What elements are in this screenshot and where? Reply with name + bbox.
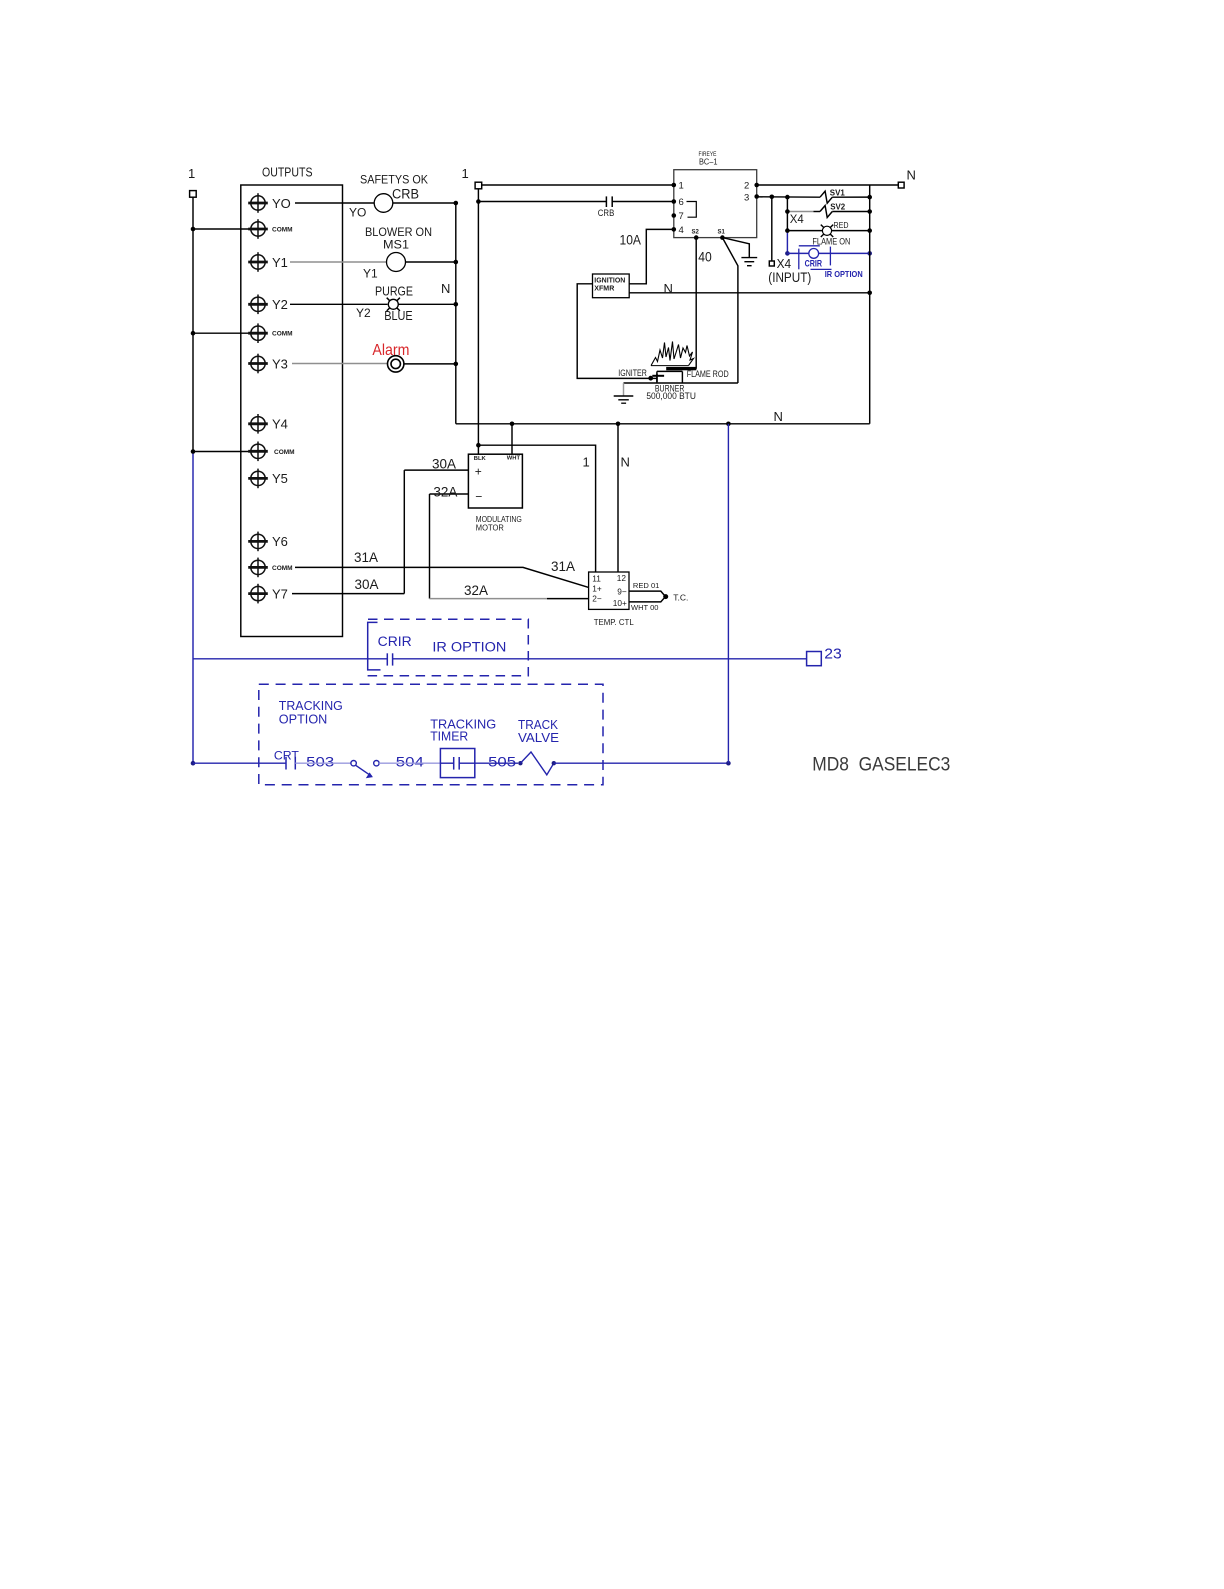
valve coil SV2 bbox=[820, 202, 846, 217]
wire track valve to riser bbox=[554, 762, 729, 764]
junction dot flame-on bus bbox=[867, 228, 872, 233]
svg-text:40: 40 bbox=[698, 249, 712, 265]
wire 30A riser bbox=[403, 470, 405, 593]
svg-text:Y1: Y1 bbox=[272, 255, 288, 270]
wire 32A bottom run bbox=[547, 598, 589, 600]
flame rod (thick bar) bbox=[666, 367, 696, 370]
pin S2 bbox=[692, 230, 700, 240]
terminal Y0 bbox=[248, 193, 291, 213]
label IGNITER bbox=[618, 368, 647, 378]
label WHT 00 bbox=[631, 603, 659, 612]
svg-text:9−: 9− bbox=[617, 586, 627, 596]
svg-text:Y2: Y2 bbox=[356, 306, 371, 320]
terminal Y2 bbox=[248, 295, 288, 315]
wire COMM3 to bus bbox=[193, 451, 254, 453]
svg-text:TEMP. CTL: TEMP. CTL bbox=[594, 617, 634, 627]
svg-text:VALVE: VALVE bbox=[518, 730, 559, 745]
contact CRT bbox=[274, 750, 299, 769]
wire 32A bottom run (gray) bbox=[430, 598, 548, 600]
wire 9- output RED 01 bbox=[629, 591, 665, 596]
wire SV column vertical (black) bbox=[786, 197, 788, 231]
bracket (ir option enclosure left) bbox=[368, 622, 381, 670]
wire X4 input column bbox=[771, 197, 773, 261]
svg-text:4: 4 bbox=[679, 225, 684, 236]
terminal Y4 bbox=[248, 414, 288, 434]
junction dot COMM3 bbox=[191, 449, 196, 454]
wire flame-on row left bbox=[787, 230, 822, 232]
temperature controller TEMP CTL box bbox=[589, 572, 634, 627]
label 10A bbox=[620, 232, 642, 248]
svg-text:Y6: Y6 bbox=[272, 534, 288, 549]
label 30A (top) bbox=[432, 456, 456, 471]
wire MS1 to N bus bbox=[406, 261, 456, 263]
label X4 (INPUT) bbox=[768, 256, 811, 285]
wire bottom N run bbox=[456, 423, 870, 425]
wire pin 2 to N terminal bbox=[757, 184, 899, 186]
node 1 (ladder hot label) bbox=[462, 166, 469, 181]
node N (xfmr row label) bbox=[664, 281, 673, 296]
terminal COMM (3) bbox=[248, 442, 294, 462]
junction dot row2 start bbox=[476, 199, 481, 204]
wire SV2 row (gray lead) bbox=[787, 211, 813, 213]
burner section bbox=[456, 342, 870, 427]
terminal square 23 bbox=[807, 646, 842, 666]
wire CRB to N bus bbox=[393, 202, 456, 204]
wire 31A run from COMM bbox=[295, 567, 589, 587]
label 31A (right) bbox=[551, 559, 575, 574]
svg-text:Y4: Y4 bbox=[272, 417, 288, 432]
junction dot 1-branch bbox=[476, 443, 481, 448]
wire row2 bus to CRB contact bbox=[478, 201, 606, 203]
node N (right label) bbox=[907, 168, 916, 183]
terminal Y5 bbox=[248, 469, 288, 489]
svg-text:RED: RED bbox=[834, 221, 849, 230]
label MD8 GASELEC3 bbox=[812, 755, 950, 776]
svg-text:COMM: COMM bbox=[274, 449, 295, 456]
junction dot Y1 row N bus bbox=[454, 260, 459, 265]
switch TRACK VALVE bbox=[518, 717, 559, 775]
label 40 bbox=[698, 249, 712, 265]
svg-text:S1: S1 bbox=[718, 230, 726, 236]
pin 2 bbox=[744, 181, 759, 192]
wire 30A run to motor plus bbox=[404, 469, 468, 471]
label CRIR (ir option) bbox=[378, 634, 412, 649]
label BURNER bbox=[655, 383, 685, 393]
label YO (wire tag) bbox=[349, 206, 366, 220]
wire ladder hot bus vertical bbox=[477, 189, 479, 454]
svg-text:31A: 31A bbox=[551, 559, 575, 574]
svg-text:Y1: Y1 bbox=[363, 267, 378, 281]
label 32A (lower) bbox=[464, 583, 488, 598]
label BLOWER ON bbox=[365, 225, 432, 239]
svg-text:504: 504 bbox=[396, 753, 424, 769]
wire Y1 to MS1 coil (gray) bbox=[290, 261, 387, 263]
relay coil CRB bbox=[374, 187, 419, 213]
svg-text:CRB: CRB bbox=[598, 208, 615, 218]
junction dot SV column bbox=[785, 195, 790, 200]
wire wht column bbox=[511, 424, 513, 454]
label 31A (left) bbox=[354, 550, 378, 565]
terminal Y1 bbox=[248, 252, 288, 272]
terminal square left bus 1 bbox=[190, 191, 197, 198]
wire left bus vertical (black upper) bbox=[192, 197, 194, 451]
label 504 bbox=[396, 753, 424, 769]
node N (bottom run label) bbox=[774, 409, 783, 424]
wire crir row right (blue) bbox=[819, 252, 870, 254]
terminal Y6 bbox=[248, 532, 288, 552]
wire Y3 to alarm (gray) bbox=[292, 363, 388, 365]
svg-text:OUTPUTS: OUTPUTS bbox=[262, 165, 313, 180]
svg-text:CRB: CRB bbox=[392, 187, 419, 202]
relay coil CRIR (IR option) bbox=[805, 249, 863, 279]
svg-text:PURGE: PURGE bbox=[375, 285, 413, 299]
ir option dashed enclosure bbox=[366, 619, 528, 676]
svg-text:30A: 30A bbox=[355, 577, 379, 592]
switch 503/504 (timed contact) bbox=[351, 761, 379, 779]
svg-text:BLK: BLK bbox=[474, 456, 487, 462]
junction dot SV2 bus bbox=[867, 209, 872, 214]
svg-text:WHT 00: WHT 00 bbox=[631, 603, 659, 612]
terminal COMM (1) bbox=[248, 219, 292, 239]
terminal square X4 input bbox=[769, 261, 774, 266]
wire S1 to ground bbox=[722, 238, 749, 258]
junction dot tracking riser bottom bbox=[726, 761, 731, 766]
svg-text:BLUE: BLUE bbox=[384, 309, 413, 323]
svg-text:Y5: Y5 bbox=[272, 471, 288, 486]
svg-text:+: + bbox=[475, 465, 482, 479]
valve coil SV1 bbox=[820, 189, 845, 204]
label 30A (lower) bbox=[355, 577, 379, 592]
svg-text:N: N bbox=[621, 455, 630, 470]
wire CRT to switch (light) bbox=[295, 762, 351, 764]
svg-text:32A: 32A bbox=[464, 583, 488, 598]
pin 1 bbox=[672, 181, 684, 192]
svg-text:MOTOR: MOTOR bbox=[476, 524, 504, 533]
svg-text:IGNITER: IGNITER bbox=[618, 368, 647, 378]
label FLAME ROD bbox=[687, 369, 729, 379]
label 500,000 BTU bbox=[646, 391, 696, 401]
terminal COMM (4) bbox=[248, 558, 292, 578]
svg-text:503: 503 bbox=[306, 753, 334, 769]
ir option section bbox=[193, 619, 842, 676]
svg-text:N: N bbox=[774, 409, 783, 424]
terminals Y0-Y7 and COMM bbox=[248, 193, 294, 603]
svg-text:1+: 1+ bbox=[592, 583, 602, 593]
flame bbox=[651, 342, 694, 366]
svg-text:COMM: COMM bbox=[272, 331, 293, 338]
contact CRIR (ir option) bbox=[387, 653, 392, 665]
svg-text:30A: 30A bbox=[432, 456, 456, 471]
terminal square ladder hot bbox=[475, 182, 482, 189]
svg-text:MS1: MS1 bbox=[383, 238, 409, 252]
svg-text:N: N bbox=[907, 168, 916, 183]
label IR OPTION bbox=[432, 639, 506, 654]
wire N column to temp ctl pin 12 bbox=[617, 424, 619, 572]
transformer IGNITION XFMR bbox=[593, 274, 630, 298]
pin 6 bbox=[672, 197, 684, 208]
wire pin 3 row bbox=[757, 196, 820, 198]
svg-text:1: 1 bbox=[583, 455, 590, 470]
fireye section bbox=[462, 152, 873, 454]
node N (left section) bbox=[441, 281, 450, 296]
wire SV1 to right bus bbox=[832, 196, 869, 198]
svg-text:CRT: CRT bbox=[274, 750, 299, 762]
wire SV2 row bbox=[814, 211, 821, 213]
contactor coil MS1 bbox=[383, 238, 409, 272]
label SAFETYS OK bbox=[360, 173, 428, 187]
contact CRB (NO) bbox=[598, 196, 615, 217]
bracket left (ir option) bbox=[799, 246, 820, 269]
svg-text:WHT: WHT bbox=[507, 456, 521, 462]
svg-text:SAFETYS OK: SAFETYS OK bbox=[360, 173, 428, 187]
row devices bbox=[290, 173, 458, 424]
wire left bus vertical (blue lower) bbox=[192, 452, 194, 764]
svg-text:3: 3 bbox=[744, 192, 749, 203]
motor & temp ctl section bbox=[292, 424, 688, 627]
bracket right (ir option) bbox=[811, 247, 832, 270]
flame baseline bbox=[651, 365, 689, 367]
wire 1-branch to temp ctl bbox=[478, 445, 595, 572]
svg-text:1: 1 bbox=[679, 181, 684, 192]
wire left N bus vertical bbox=[455, 203, 457, 424]
junction dot temp ctl N column bbox=[616, 422, 621, 427]
node 1 (temp ctl feed label) bbox=[583, 455, 590, 470]
svg-text:N: N bbox=[664, 281, 673, 296]
terminal COMM (2) bbox=[248, 323, 292, 343]
svg-text:23: 23 bbox=[824, 646, 842, 663]
jumper pins 6-7 bbox=[687, 202, 697, 218]
label RED 01 bbox=[633, 581, 660, 590]
terminal square N (right) bbox=[898, 182, 904, 188]
svg-text:32A: 32A bbox=[433, 485, 457, 500]
svg-text:BLOWER ON: BLOWER ON bbox=[365, 225, 432, 239]
label Y1 (wire tag) bbox=[363, 267, 378, 281]
wire COMM1 to bus bbox=[193, 228, 251, 230]
svg-text:CRIR: CRIR bbox=[805, 258, 823, 269]
timer TRACKING TIMER bbox=[430, 716, 496, 777]
wire Y0 to CRB coil bbox=[295, 202, 374, 204]
svg-text:12: 12 bbox=[617, 573, 627, 583]
pin 7 bbox=[672, 211, 684, 222]
junction dot flame-on row bbox=[785, 228, 790, 233]
indicator Alarm (double circle) bbox=[372, 342, 409, 372]
label 32A (top) bbox=[433, 485, 457, 500]
junction dot SV1 bus bbox=[867, 195, 872, 200]
svg-text:2: 2 bbox=[744, 181, 749, 192]
svg-text:XFMR: XFMR bbox=[594, 284, 615, 293]
wire SV2 to right bus bbox=[832, 211, 869, 213]
label FIREYE bbox=[699, 152, 717, 158]
ground (S1) bbox=[741, 258, 757, 266]
label X4 (relay) bbox=[790, 212, 804, 226]
wire right N bus vertical bbox=[869, 185, 871, 424]
wire 32A run to motor minus bbox=[430, 493, 469, 495]
tracking option dashed enclosure bbox=[259, 684, 603, 785]
thermocouple T.C. bbox=[663, 592, 688, 602]
svg-text:500,000 BTU: 500,000 BTU bbox=[646, 391, 696, 401]
svg-text:TIMER: TIMER bbox=[430, 729, 468, 744]
svg-text:−: − bbox=[475, 490, 482, 504]
wire alarm to N bus bbox=[404, 363, 456, 365]
svg-text:COMM: COMM bbox=[272, 227, 293, 234]
wire Y7 to 30A riser bbox=[292, 593, 404, 595]
svg-text:1: 1 bbox=[188, 166, 195, 181]
lamp FLAME ON (RED) bbox=[812, 221, 850, 247]
terminal Y3 bbox=[248, 354, 288, 374]
pin 4 bbox=[672, 225, 684, 236]
svg-text:MD8 GASELEC3: MD8 GASELEC3 bbox=[812, 755, 950, 776]
junction dot Y0 row N bus bbox=[454, 201, 459, 206]
wire xfmr to igniter bbox=[577, 284, 650, 379]
wire S1 to burner body bbox=[722, 238, 738, 383]
junction dot crir row bbox=[785, 251, 790, 256]
svg-text:(INPUT): (INPUT) bbox=[768, 269, 811, 285]
svg-text:505: 505 bbox=[488, 753, 516, 769]
svg-text:IR OPTION: IR OPTION bbox=[432, 639, 506, 654]
junction dot N run right end bbox=[867, 291, 872, 296]
burner body bbox=[624, 371, 738, 383]
svg-text:COMM: COMM bbox=[272, 565, 293, 572]
junction dot COMM1 bbox=[191, 227, 196, 232]
wire flame-on row right bbox=[832, 230, 870, 232]
svg-text:YO: YO bbox=[272, 196, 291, 211]
svg-text:11: 11 bbox=[592, 573, 601, 583]
svg-text:FLAME ON: FLAME ON bbox=[812, 237, 850, 247]
svg-text:31A: 31A bbox=[354, 550, 378, 565]
wire ir option row left bbox=[193, 658, 387, 660]
ground (igniter) bbox=[614, 383, 634, 403]
wire Y2 to purge lamp bbox=[290, 303, 388, 305]
svg-text:Y7: Y7 bbox=[272, 586, 288, 601]
flame safeguard U1 FIREYE BC-1 box bbox=[674, 170, 757, 238]
label TRACKING OPTION bbox=[279, 698, 343, 727]
svg-text:MODULATING: MODULATING bbox=[476, 515, 522, 524]
modulating motor box bbox=[468, 454, 522, 532]
label BC-1 bbox=[699, 157, 718, 167]
label 503 bbox=[306, 753, 334, 769]
right ladder section bbox=[757, 168, 916, 424]
svg-text:OPTION: OPTION bbox=[279, 712, 328, 727]
node 1 (left hot bus label) bbox=[188, 166, 195, 181]
label Y2 (wire tag) bbox=[356, 306, 371, 320]
pin S1 bbox=[718, 230, 726, 240]
svg-text:BC–1: BC–1 bbox=[699, 157, 718, 167]
junction dot tracking row bbox=[191, 761, 196, 766]
svg-text:SV2: SV2 bbox=[830, 202, 846, 211]
svg-text:10+: 10+ bbox=[613, 598, 627, 608]
junction dot tracking riser bbox=[726, 422, 731, 427]
tracking option section bbox=[193, 424, 950, 785]
wire crir row left (blue) bbox=[787, 252, 808, 254]
svg-text:SV1: SV1 bbox=[830, 189, 846, 198]
svg-text:X4: X4 bbox=[790, 212, 804, 226]
svg-text:1: 1 bbox=[462, 166, 469, 181]
svg-text:FLAME ROD: FLAME ROD bbox=[687, 369, 729, 379]
svg-text:RED 01: RED 01 bbox=[633, 581, 660, 590]
label OUTPUTS bbox=[262, 165, 313, 180]
wire switch to timer (light) bbox=[379, 762, 440, 764]
svg-text:Alarm: Alarm bbox=[372, 342, 409, 359]
svg-text:CRIR: CRIR bbox=[378, 634, 412, 649]
junction dot Y3 row N bus bbox=[454, 362, 459, 367]
wire row1 square to pin 1 bbox=[482, 184, 674, 186]
junction dot SV2 left bbox=[785, 209, 790, 214]
OUTPUTS terminal block box bbox=[241, 185, 343, 637]
svg-text:2−: 2− bbox=[592, 594, 602, 604]
wire S2 to flame rod bbox=[695, 238, 697, 369]
wire pin 4 to ignition xfmr bbox=[629, 229, 674, 283]
wire 10+ output WHT 00 bbox=[629, 597, 665, 602]
node N (temp ctl feed label) bbox=[621, 455, 630, 470]
junction dot Y2 row N bus bbox=[454, 302, 459, 307]
svg-text:Y2: Y2 bbox=[272, 297, 288, 312]
svg-text:10A: 10A bbox=[620, 232, 642, 248]
junction dot COMM2 bbox=[191, 331, 196, 336]
svg-text:N: N bbox=[441, 281, 450, 296]
svg-text:Y3: Y3 bbox=[272, 356, 288, 371]
label 505 bbox=[488, 753, 516, 769]
igniter electrode bbox=[648, 374, 664, 382]
svg-text:S2: S2 bbox=[692, 230, 700, 236]
wire SV column vertical (blue) bbox=[786, 231, 788, 254]
svg-text:7: 7 bbox=[679, 211, 684, 222]
wire ir option row right to terminal 23 bbox=[393, 658, 807, 660]
wire purge lamp to N bus bbox=[398, 303, 456, 305]
wire tracking row from bus bbox=[193, 762, 286, 764]
lamp PURGE BLUE bbox=[375, 285, 413, 323]
wire 32A riser bbox=[429, 494, 431, 599]
wire tracking riser (blue) bbox=[727, 424, 729, 763]
wire N run from xfmr bbox=[629, 292, 870, 294]
svg-text:IR OPTION: IR OPTION bbox=[825, 269, 863, 279]
wire COMM2 to bus bbox=[193, 332, 250, 334]
junction dot wht column bbox=[510, 422, 515, 427]
svg-text:YO: YO bbox=[349, 206, 366, 220]
wire CRB contact to pin 6 bbox=[612, 201, 674, 203]
junction dot crir bus bbox=[867, 251, 872, 256]
junction dot X4 column bbox=[770, 195, 775, 200]
svg-text:6: 6 bbox=[679, 197, 684, 208]
terminal Y7 bbox=[248, 584, 288, 604]
pin 3 bbox=[744, 192, 759, 203]
wire timer to track valve bbox=[475, 762, 518, 764]
svg-text:T.C.: T.C. bbox=[673, 592, 688, 602]
